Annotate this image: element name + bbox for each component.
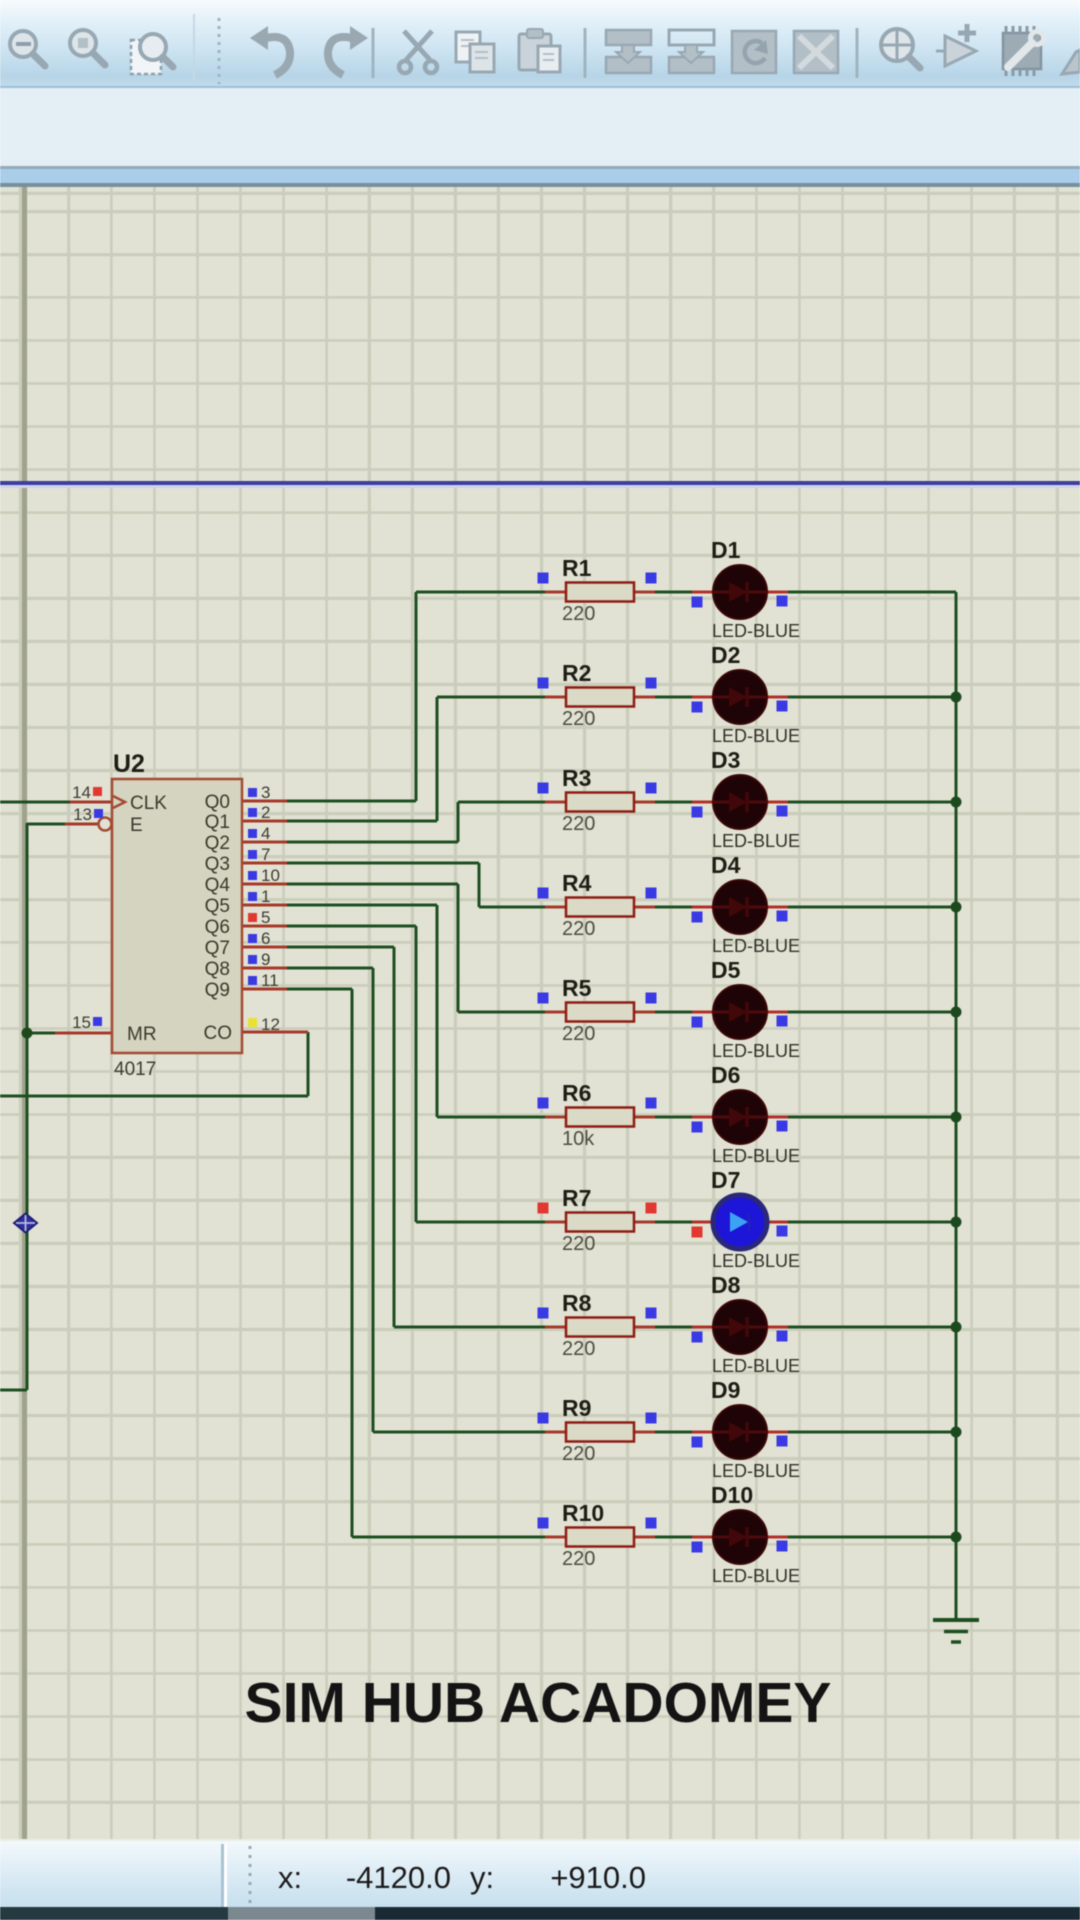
svg-text:U2: U2 bbox=[113, 750, 145, 778]
svg-text:220: 220 bbox=[562, 1338, 595, 1360]
svg-text:MR: MR bbox=[127, 1024, 157, 1045]
svg-text:220: 220 bbox=[562, 1233, 595, 1255]
svg-text:3: 3 bbox=[261, 783, 270, 802]
svg-text:D10: D10 bbox=[711, 1482, 753, 1508]
svg-text:R2: R2 bbox=[562, 660, 591, 686]
svg-text:Q7: Q7 bbox=[205, 938, 230, 959]
svg-text:D4: D4 bbox=[711, 852, 741, 878]
svg-text:R9: R9 bbox=[562, 1395, 591, 1421]
svg-text:E: E bbox=[130, 815, 143, 836]
svg-text:11: 11 bbox=[261, 971, 279, 990]
svg-text:R1: R1 bbox=[562, 555, 592, 581]
svg-text:D7: D7 bbox=[711, 1167, 740, 1193]
svg-text:CLK: CLK bbox=[130, 793, 167, 814]
svg-text:R7: R7 bbox=[562, 1185, 591, 1211]
svg-text:7: 7 bbox=[261, 845, 270, 864]
svg-text:LED-BLUE: LED-BLUE bbox=[712, 1461, 800, 1481]
svg-text:5: 5 bbox=[261, 908, 270, 927]
svg-text:Q8: Q8 bbox=[205, 959, 230, 980]
svg-text:220: 220 bbox=[562, 813, 595, 835]
svg-text:Q6: Q6 bbox=[205, 917, 230, 938]
svg-text:LED-BLUE: LED-BLUE bbox=[712, 1146, 800, 1166]
svg-text:Q2: Q2 bbox=[205, 833, 230, 854]
svg-text:14: 14 bbox=[72, 783, 91, 802]
svg-text:6: 6 bbox=[261, 929, 270, 948]
svg-text:Q9: Q9 bbox=[205, 980, 230, 1001]
svg-text:R4: R4 bbox=[562, 870, 592, 896]
svg-text:LED-BLUE: LED-BLUE bbox=[712, 726, 800, 746]
svg-text:LED-BLUE: LED-BLUE bbox=[712, 1251, 800, 1271]
svg-text:D6: D6 bbox=[711, 1062, 740, 1088]
svg-text:D1: D1 bbox=[711, 537, 741, 563]
svg-text:13: 13 bbox=[73, 805, 92, 824]
svg-text:CO: CO bbox=[204, 1023, 233, 1044]
svg-text:10: 10 bbox=[261, 866, 280, 885]
svg-text:Q4: Q4 bbox=[205, 875, 231, 896]
svg-text:220: 220 bbox=[562, 708, 595, 730]
svg-text:220: 220 bbox=[562, 603, 595, 625]
svg-text:10k: 10k bbox=[562, 1128, 595, 1150]
svg-text:LED-BLUE: LED-BLUE bbox=[712, 1566, 800, 1586]
svg-text:R8: R8 bbox=[562, 1290, 592, 1316]
svg-text:SIM HUB ACADOMEY: SIM HUB ACADOMEY bbox=[245, 1671, 832, 1735]
svg-text:220: 220 bbox=[562, 1023, 595, 1045]
svg-text:R6: R6 bbox=[562, 1080, 591, 1106]
svg-text:LED-BLUE: LED-BLUE bbox=[712, 1041, 800, 1061]
svg-text:y:: y: bbox=[470, 1860, 494, 1895]
svg-text:D2: D2 bbox=[711, 642, 740, 668]
svg-text:Q1: Q1 bbox=[205, 812, 230, 833]
svg-text:Q5: Q5 bbox=[205, 896, 230, 917]
svg-text:Q0: Q0 bbox=[205, 792, 230, 813]
svg-text:LED-BLUE: LED-BLUE bbox=[712, 1356, 800, 1376]
svg-text:220: 220 bbox=[562, 1443, 595, 1465]
svg-text:9: 9 bbox=[261, 950, 270, 969]
svg-text:220: 220 bbox=[562, 918, 595, 940]
svg-text:4: 4 bbox=[261, 824, 270, 843]
svg-text:D9: D9 bbox=[711, 1377, 740, 1403]
svg-text:15: 15 bbox=[72, 1013, 91, 1032]
svg-text:220: 220 bbox=[562, 1548, 595, 1570]
svg-text:4017: 4017 bbox=[114, 1059, 156, 1080]
svg-text:LED-BLUE: LED-BLUE bbox=[712, 621, 800, 641]
svg-text:R5: R5 bbox=[562, 975, 592, 1001]
svg-text:R10: R10 bbox=[562, 1500, 604, 1526]
svg-text:-4120.0: -4120.0 bbox=[346, 1860, 451, 1895]
svg-text:+910.0: +910.0 bbox=[550, 1860, 646, 1895]
svg-text:2: 2 bbox=[261, 803, 270, 822]
svg-text:D8: D8 bbox=[711, 1272, 741, 1298]
svg-text:D3: D3 bbox=[711, 747, 740, 773]
svg-text:D5: D5 bbox=[711, 957, 741, 983]
svg-text:x:: x: bbox=[278, 1860, 302, 1895]
svg-text:R3: R3 bbox=[562, 765, 591, 791]
svg-text:Q3: Q3 bbox=[205, 854, 230, 875]
svg-text:12: 12 bbox=[261, 1015, 280, 1034]
svg-text:1: 1 bbox=[261, 887, 270, 906]
svg-text:LED-BLUE: LED-BLUE bbox=[712, 831, 800, 851]
svg-text:LED-BLUE: LED-BLUE bbox=[712, 936, 800, 956]
